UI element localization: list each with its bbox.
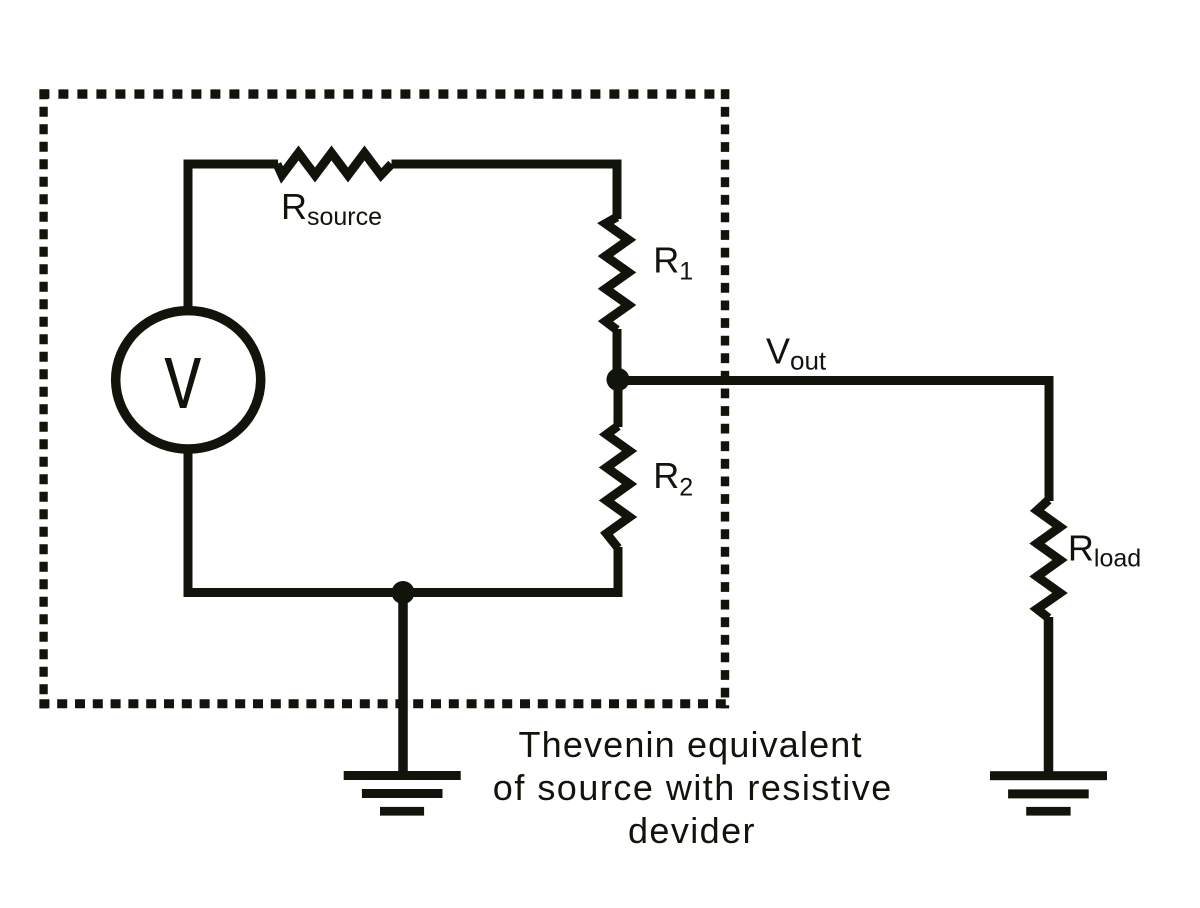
wire from voltage source top to R_source bbox=[188, 164, 278, 312]
resistor R_source bbox=[277, 153, 392, 175]
resistor R1 bbox=[606, 217, 629, 330]
wire R2 bottom to source bottom bbox=[188, 450, 618, 593]
thevenin box dashed border right bbox=[721, 89, 729, 708]
svg-text:Thevenin equivalent: Thevenin equivalent bbox=[519, 724, 862, 765]
node dot Vout bbox=[607, 368, 630, 391]
junction dot on bottom wire bbox=[392, 581, 415, 604]
wire junction to ground bbox=[398, 593, 408, 776]
wire from R_source to R1 bbox=[392, 164, 618, 219]
wire node to R2 bbox=[614, 380, 623, 427]
svg-text:devider: devider bbox=[628, 810, 755, 851]
ground symbol left bbox=[344, 771, 461, 816]
thevenin box dashed border bottom bbox=[39, 699, 729, 708]
wire R_load to ground bbox=[1044, 617, 1054, 775]
ground symbol right bbox=[990, 771, 1107, 815]
voltage source V circle bbox=[116, 311, 261, 449]
thevenin box dashed border left bbox=[39, 89, 47, 708]
thevenin box dashed border top bbox=[39, 89, 729, 98]
voltage source V letter bbox=[165, 358, 202, 408]
wire Vout node to R_load branch bbox=[617, 381, 1049, 502]
resistor R_load bbox=[1037, 500, 1060, 618]
resistor R2 bbox=[607, 426, 630, 548]
wire from R1 to output node bbox=[613, 329, 622, 380]
